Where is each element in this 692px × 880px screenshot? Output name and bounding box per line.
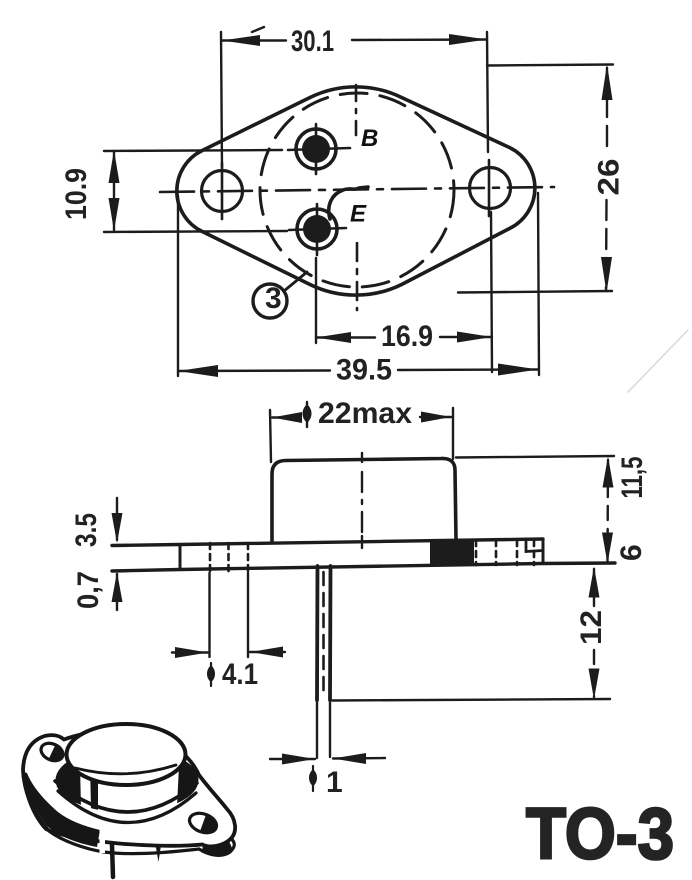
svg-text:1: 1 xyxy=(326,766,343,799)
phi symbol 1 xyxy=(309,766,317,791)
svg-text:0,7: 0,7 xyxy=(72,571,105,609)
hole left xyxy=(38,740,66,764)
mounting hole right xyxy=(470,168,511,209)
dim dia 4.1 xyxy=(172,573,285,657)
vertical centerline bottom xyxy=(356,243,359,310)
phi symbol 22max xyxy=(303,402,312,427)
dim 12 xyxy=(332,569,610,701)
left flange thickness arrows xyxy=(116,498,118,610)
svg-text:39.5: 39.5 xyxy=(336,354,392,387)
flange hidden hole lines left xyxy=(210,543,248,571)
skirt slot right xyxy=(168,766,179,806)
skirt front window xyxy=(98,770,176,811)
dim 30.1 xyxy=(221,32,488,168)
dim 16.9 xyxy=(316,212,492,372)
skirt slot left xyxy=(80,764,91,809)
svg-text:3.5: 3.5 xyxy=(70,513,103,547)
svg-text:10.9: 10.9 xyxy=(60,168,93,220)
flange right black section xyxy=(430,539,474,565)
side view pin xyxy=(317,566,331,758)
dim dia 22 max xyxy=(270,408,453,462)
vertical centerline top xyxy=(355,85,358,135)
svg-text:TO-3: TO-3 xyxy=(526,795,674,875)
dim 11.5 / 6 xyxy=(456,456,614,562)
flange top surface xyxy=(23,731,235,847)
can dome xyxy=(67,724,186,785)
side view flange top line xyxy=(112,539,543,546)
svg-text:6: 6 xyxy=(615,544,648,561)
dim 10.9 xyxy=(104,150,287,232)
can skirt xyxy=(57,749,197,811)
dim dia 1 xyxy=(270,758,385,759)
horizontal centerline xyxy=(160,187,554,192)
svg-text:E: E xyxy=(350,201,367,228)
base ring arc 1 xyxy=(55,781,197,812)
faint scan streak xyxy=(628,330,688,392)
right hole vertical crosshair xyxy=(488,160,491,216)
dim 39.5 xyxy=(178,193,539,376)
iso pin 2 xyxy=(156,845,162,862)
hole right xyxy=(187,810,219,836)
dashed can circle (top view) xyxy=(260,93,454,287)
emitter squiggle leader xyxy=(329,187,368,219)
svg-text:16.9: 16.9 xyxy=(381,320,433,353)
pin E xyxy=(289,204,346,255)
pin B xyxy=(288,124,350,174)
case leader circle 3 xyxy=(253,272,307,318)
flange right tip black crescent xyxy=(202,841,233,854)
base ring arc 2 xyxy=(58,791,196,823)
svg-text:12: 12 xyxy=(575,610,608,645)
phi symbol 4.1 xyxy=(207,663,215,686)
svg-text:3: 3 xyxy=(265,282,282,315)
flange left-lower black swath xyxy=(23,772,100,847)
dim 26 xyxy=(458,65,613,293)
flange left end xyxy=(179,545,182,570)
iso pin 1 xyxy=(112,845,113,877)
svg-text:26: 26 xyxy=(593,159,626,196)
svg-text:4.1: 4.1 xyxy=(222,658,258,691)
top view flange outline xyxy=(177,87,535,295)
flange hidden hole lines right xyxy=(476,540,534,565)
svg-text:30.1: 30.1 xyxy=(291,25,334,58)
side view flange bottom line xyxy=(112,563,615,571)
flange right end xyxy=(542,539,545,564)
side view center line xyxy=(361,453,363,548)
left hole vertical crosshair xyxy=(221,163,224,219)
flange thickness lower edge xyxy=(23,774,234,855)
stray scan tick xyxy=(252,27,264,32)
svg-text:11,5: 11,5 xyxy=(616,457,649,499)
svg-text:B: B xyxy=(361,125,378,152)
dome inner crimp line xyxy=(75,765,176,774)
side view can xyxy=(272,458,456,542)
3d perspective TO-3 sketch xyxy=(23,724,235,877)
flange slot white xyxy=(100,826,106,853)
svg-text:22max: 22max xyxy=(318,397,412,430)
mounting hole left xyxy=(202,171,243,212)
flange right step xyxy=(526,540,543,552)
